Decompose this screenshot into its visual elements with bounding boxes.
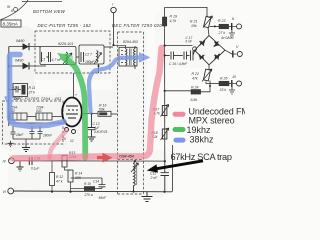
svg-text:C2 7: C2 7 xyxy=(85,53,92,57)
transformer T1 secondary xyxy=(134,46,136,69)
svg-text:4,7k: 4,7k xyxy=(170,19,177,23)
legend swatch mpx xyxy=(173,112,186,117)
terminal IV xyxy=(3,158,15,164)
svg-text:R 23: R 23 xyxy=(218,19,225,23)
svg-text:8.35mA: 8.35mA xyxy=(3,22,18,27)
transformer T1 primary xyxy=(114,45,128,65)
capacitor C13 xyxy=(88,114,108,135)
legend text Undecoded FM xyxy=(189,106,249,116)
svg-text:6: 6 xyxy=(11,9,13,13)
wire chain vertical xyxy=(164,46,166,162)
wire to R26 xyxy=(210,83,219,85)
callout black arrow xyxy=(147,161,203,173)
svg-text:2 nF: 2 nF xyxy=(150,176,159,180)
resistor R16 56k xyxy=(98,104,111,117)
trap label 7294-454 xyxy=(119,155,134,159)
capacitor C17 6nF xyxy=(164,36,193,60)
capacitor C1 4.7nF xyxy=(41,52,62,62)
junction node D2 xyxy=(8,65,10,67)
wire bridge right to terminal V xyxy=(225,50,237,57)
label 7294-033 xyxy=(36,106,45,114)
socket pin labels xyxy=(7,5,13,13)
junction node detector top xyxy=(164,45,166,47)
coil filter L4 xyxy=(36,113,52,120)
svg-text:180nF: 180nF xyxy=(43,134,53,138)
legend text MPX stereo xyxy=(189,115,235,125)
bridge label 4x 0A90 xyxy=(221,36,234,40)
bandfilter case box xyxy=(119,47,137,66)
overlay mpx tube branch xyxy=(50,131,66,158)
filter section box A xyxy=(40,47,76,65)
svg-text:270 Ω: 270 Ω xyxy=(84,193,93,197)
svg-text:I: I xyxy=(112,3,113,7)
wire box2 internal row xyxy=(9,117,62,124)
trap label 7294-454 overlay copy xyxy=(119,155,134,159)
capacitor C6 xyxy=(30,126,35,139)
trap box dashed top xyxy=(118,159,144,161)
svg-text:6 nF: 6 nF xyxy=(186,40,193,44)
svg-text:4x 0A90: 4x 0A90 xyxy=(221,36,234,40)
current label box 8.35mA xyxy=(1,20,21,27)
junction node at filter input xyxy=(112,44,114,46)
label DEC-FILTER 7294-451 xyxy=(14,96,62,101)
capacitor C16 4.8nF xyxy=(169,51,195,67)
trimmer R17 xyxy=(153,105,169,117)
svg-text:27 k: 27 k xyxy=(28,91,36,95)
resistor R19 4.7k xyxy=(162,7,177,45)
vacuum tube V1 xyxy=(62,73,82,127)
capacitor C15 2nF xyxy=(150,161,170,192)
resistor R12 47k xyxy=(50,161,64,193)
capacitor C5 18nF xyxy=(11,126,25,139)
dec-filter module box dashed tall xyxy=(118,32,144,194)
wire R24 row xyxy=(164,85,211,92)
wire section B down xyxy=(98,64,100,73)
dec-filter box 7294 dashed xyxy=(3,101,64,144)
wire box1 out to node xyxy=(104,46,113,48)
filter section box B xyxy=(79,45,104,64)
svg-text:DEC FILTER 7Z93-020: DEC FILTER 7Z93-020 xyxy=(112,23,162,28)
junction node anode xyxy=(90,112,92,114)
wire diode D1 row xyxy=(9,47,40,49)
potentiometer R21 10k xyxy=(190,16,213,36)
svg-text:IV: IV xyxy=(3,160,7,164)
svg-text:BOTTOM VIEW: BOTTOM VIEW xyxy=(33,9,66,14)
svg-text:19khz: 19khz xyxy=(187,125,212,135)
connector bar II xyxy=(232,23,237,30)
junction node pot out xyxy=(210,25,220,27)
svg-text:C 16 / 4,8nF: C 16 / 4,8nF xyxy=(169,62,188,66)
ground under C13 xyxy=(88,134,96,141)
paper shading xyxy=(0,8,215,198)
svg-text:6,8k: 6,8k xyxy=(191,98,198,102)
coil L1 adjustable xyxy=(63,52,72,64)
label 7294-032 xyxy=(10,106,19,114)
overlay 19khz path xyxy=(57,53,85,158)
transformer T1 core xyxy=(130,49,132,66)
svg-text:R 11: R 11 xyxy=(29,86,36,90)
capacitor C7 180nF xyxy=(38,126,54,139)
svg-text:R 26: R 26 xyxy=(220,77,227,81)
tube pins bottom xyxy=(61,128,76,144)
resistor R26 33k xyxy=(219,77,231,93)
label 8294-453 xyxy=(123,40,138,44)
wire left vertical bus xyxy=(8,47,10,127)
trimmer R18 xyxy=(152,128,169,140)
terminal I top xyxy=(111,3,116,13)
svg-text:V: V xyxy=(236,45,239,49)
svg-text:C11: C11 xyxy=(14,86,20,90)
svg-text:VI: VI xyxy=(3,190,6,194)
main mpx wire xyxy=(15,160,165,162)
legend text 38khz xyxy=(190,134,215,144)
ground under III bar xyxy=(229,87,235,94)
capacitor C14 56nF xyxy=(71,178,108,200)
tube pin 7 label xyxy=(75,93,77,97)
wire tube anode right xyxy=(82,113,98,115)
ground at C18 xyxy=(17,161,24,171)
svg-text:56nF: 56nF xyxy=(99,196,108,200)
coil filter L3 xyxy=(10,113,27,120)
wire box2 bottom row xyxy=(13,139,40,144)
diode D1 OA90 xyxy=(16,39,29,50)
svg-text:10k: 10k xyxy=(191,24,197,28)
coil L2 adjustable xyxy=(94,51,102,65)
svg-text:C14: C14 xyxy=(93,180,99,184)
svg-text:0A90: 0A90 xyxy=(16,39,24,43)
svg-text:DEC-FILTER TZ95 - 162: DEC-FILTER TZ95 - 162 xyxy=(38,23,92,28)
wire top feed xyxy=(165,7,207,16)
capacitor C18 xyxy=(29,157,40,171)
svg-text:R 15: R 15 xyxy=(84,182,91,186)
wire bridge bottom down xyxy=(208,65,210,70)
wire detector row xyxy=(165,46,197,51)
resistor R24 6.8k xyxy=(191,86,201,103)
overlay 38khz path tube to filter xyxy=(89,52,151,112)
svg-text:9229-101: 9229-101 xyxy=(58,42,73,46)
svg-text:R 24: R 24 xyxy=(191,86,198,90)
resistor R15 270 xyxy=(71,182,96,197)
resistor R23 27k xyxy=(218,19,232,35)
svg-text:XXUF/25: XXUF/25 xyxy=(93,130,108,134)
terminal V xyxy=(236,45,242,57)
capacitor block C11 / resistor R11 xyxy=(9,84,36,101)
dec-filter box TZ95-162 dashed xyxy=(35,31,110,73)
connector bar III xyxy=(232,80,237,87)
legend swatch 38khz xyxy=(174,138,186,143)
svg-text:12: 12 xyxy=(70,139,74,143)
BOTTOM VIEW label xyxy=(33,9,66,14)
svg-text:18nF: 18nF xyxy=(16,133,24,137)
svg-text:7294-454: 7294-454 xyxy=(119,155,134,159)
wire ground bus bottom xyxy=(14,190,172,193)
overlay mpx band xyxy=(13,48,162,159)
overlay 38khz path left xyxy=(4,55,64,127)
callout text 67kHz SCA trap xyxy=(171,152,232,162)
capacitor C2 xyxy=(81,52,95,64)
ground main bottom xyxy=(142,192,153,202)
overlay red arrow xyxy=(97,153,113,163)
tube socket bottom view arc xyxy=(0,0,28,20)
terminal III xyxy=(233,75,242,86)
wire diode D2 row xyxy=(9,65,46,67)
terminal II xyxy=(232,17,242,29)
svg-text:47k: 47k xyxy=(192,76,198,80)
svg-text:R 12: R 12 xyxy=(56,175,63,179)
node label DEC-FILTER TZ95-162 xyxy=(38,23,92,28)
svg-text:C1: C1 xyxy=(41,58,45,62)
wire R16 to module xyxy=(112,113,118,115)
label DEC FILTER 7293-020 xyxy=(112,23,162,28)
wire right box edge xyxy=(172,145,174,192)
resistor R14 18k xyxy=(68,170,82,193)
svg-text:8294-453: 8294-453 xyxy=(123,40,138,44)
svg-text:27 k: 27 k xyxy=(218,31,226,35)
svg-text:56k: 56k xyxy=(99,108,105,112)
diode D2 OA90 xyxy=(15,59,29,70)
legend swatch 19khz xyxy=(173,127,186,132)
label 9229-101 xyxy=(58,42,73,46)
svg-text:III: III xyxy=(233,75,237,79)
wire terminal I down xyxy=(113,13,115,45)
junction node trap tap xyxy=(134,160,136,162)
ground box2 left xyxy=(8,141,14,147)
svg-text:180pF: 180pF xyxy=(85,60,95,64)
junction node trap bottom xyxy=(132,190,134,192)
svg-text:II: II xyxy=(232,17,235,21)
svg-text:33 k: 33 k xyxy=(220,88,227,92)
svg-text:47 k: 47 k xyxy=(56,180,63,184)
potentiometer R22 47k xyxy=(192,69,213,92)
wire top stub xyxy=(22,1,62,3)
terminal VI xyxy=(3,188,14,194)
ground under II bar xyxy=(229,30,235,37)
svg-text:0A90: 0A90 xyxy=(15,59,23,63)
svg-text:38khz: 38khz xyxy=(190,134,215,144)
junction nodes on bus xyxy=(51,191,166,193)
junction node mpx-chain xyxy=(164,160,166,162)
diode bridge 4x OA90 xyxy=(195,36,225,65)
ground under box2 xyxy=(22,144,30,152)
trap coil L5 xyxy=(131,161,139,191)
legend text 19khz xyxy=(187,125,212,135)
svg-text:DEC-FILTER 7294 - 451: DEC-FILTER 7294 - 451 xyxy=(14,96,62,101)
svg-text:R 14: R 14 xyxy=(75,172,82,176)
resistor R13 220k xyxy=(62,151,77,170)
wire section A to B xyxy=(76,56,79,58)
svg-text:0,1μF: 0,1μF xyxy=(31,167,40,171)
